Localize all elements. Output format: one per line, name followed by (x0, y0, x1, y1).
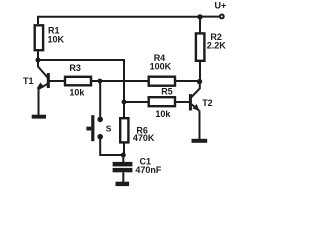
svg-text:10K: 10K (48, 34, 65, 44)
node B junction dot (98, 79, 103, 84)
svg-text:T1: T1 (23, 76, 34, 86)
wire node A to middle column (38, 60, 124, 117)
resistor R6 (120, 118, 128, 142)
transistor T1 (37, 60, 50, 115)
svg-text:R3: R3 (69, 63, 81, 73)
svg-text:470K: 470K (133, 133, 155, 143)
wire node B down to switch (99, 81, 101, 119)
wire top rail from R1 to U+ (38, 17, 200, 24)
svg-text:2.2K: 2.2K (207, 40, 227, 50)
node D junction dot R5 branch (122, 100, 127, 105)
wire R3 to R4 (92, 80, 149, 82)
node E junction dot (197, 79, 202, 84)
terminal U+ (220, 14, 224, 18)
svg-text:100K: 100K (150, 61, 172, 71)
svg-text:10k: 10k (69, 88, 85, 98)
svg-text:U+: U+ (215, 0, 227, 10)
svg-text:R5: R5 (161, 87, 173, 97)
ground under T2 (192, 139, 208, 143)
wire U+ dot to terminal (200, 16, 220, 18)
resistor R2 (196, 33, 205, 60)
resistor R5 (149, 97, 175, 106)
node A junction dot (36, 58, 41, 63)
resistor R1 (35, 25, 43, 50)
resistor R3 (65, 77, 91, 86)
wire R6 bottom to node C (123, 142, 125, 155)
wire R1 bottom to node A (37, 51, 39, 61)
ground under T1 (32, 115, 46, 119)
switch S (86, 115, 103, 141)
resistor R4 (149, 77, 175, 86)
svg-text:10k: 10k (155, 109, 171, 119)
capacitor C1 (113, 155, 133, 182)
wire T1 base to R3 (49, 80, 65, 82)
svg-text:T2: T2 (202, 98, 213, 108)
node F junction dot U+ rail (197, 14, 202, 19)
ground under C1 (116, 182, 130, 186)
wire R4 to node E (175, 80, 200, 82)
wire R2 bottom to node E (199, 61, 201, 82)
wire node D to R5 (124, 101, 149, 103)
transistor T2 (189, 82, 200, 139)
wire U+ dot down to R2 (199, 17, 201, 33)
node C junction dot (121, 153, 126, 158)
wire R5 to T2 base (175, 101, 189, 103)
svg-text:470nF: 470nF (135, 165, 162, 175)
wire switch to node C (100, 137, 123, 155)
svg-text:S: S (106, 123, 112, 133)
